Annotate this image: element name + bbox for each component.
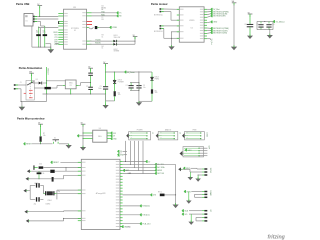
svg-text:TXD(D1): TXD(D1)	[142, 215, 149, 217]
wire gnd vertical	[40, 28, 42, 47]
svg-text:U1: U1	[102, 6, 104, 8]
svg-text:I2C: I2C	[209, 210, 211, 213]
svg-text:RESET: RESET	[53, 162, 59, 164]
svg-text:VUSB: VUSB	[112, 27, 117, 29]
power flag 5V cap	[248, 13, 253, 15]
wire reset row	[32, 143, 53, 145]
svg-text:Partie moteur: Partie moteur	[151, 2, 168, 6]
svg-text:Partie Alimentation: Partie Alimentation	[19, 66, 43, 70]
wire mcu row0	[123, 161, 146, 163]
wires mcu bottom right flags	[123, 205, 141, 207]
power flag VM	[232, 2, 237, 4]
svg-text:CONN: CONN	[205, 132, 207, 136]
svg-text:10k: 10k	[43, 135, 46, 137]
power flag +5V (USB)	[38, 5, 43, 7]
svg-text:1k: 1k	[102, 36, 104, 38]
net flag RESET 2	[50, 161, 52, 164]
net arrow row E	[26, 219, 29, 223]
wire to ground	[269, 30, 271, 35]
connector X1 USB	[24, 14, 33, 27]
wire xtal2 to ic	[57, 193, 81, 195]
capacitor C10	[268, 22, 270, 24]
svg-text:AREF: AREF	[157, 169, 162, 172]
led D2 power	[114, 72, 116, 80]
svg-text:MOTEUR-B: MOTEUR-B	[154, 31, 163, 33]
led D3	[151, 72, 153, 77]
capacitor C11 row	[33, 165, 34, 169]
svg-text:27R: 27R	[36, 32, 40, 34]
svg-text:YELLOW: YELLOW	[114, 37, 121, 39]
net flag stack right	[155, 163, 157, 166]
net flag PCB_LED	[150, 194, 152, 197]
svg-text:22p: 22p	[34, 203, 37, 205]
connector MOTEUR-B	[160, 25, 162, 27]
wire 5V branch down	[138, 72, 140, 102]
ground VM	[231, 47, 237, 51]
wire motA2	[164, 11, 171, 13]
resistor R8	[39, 166, 44, 168]
svg-text:22p: 22p	[58, 191, 61, 193]
svg-text:L1: L1	[102, 17, 104, 19]
net arrow XTAL	[23, 189, 26, 193]
resistor R9	[160, 194, 165, 197]
ground G2	[186, 201, 192, 204]
wire D-	[37, 18, 58, 20]
wire LED RX row	[90, 43, 113, 45]
net label 5V_Moteur vertical	[207, 38, 211, 40]
connector group G3	[182, 209, 184, 212]
net flag RESET	[23, 142, 25, 145]
svg-text:U2: U2	[191, 28, 193, 30]
svg-text:C8: C8	[244, 24, 246, 26]
resistor R7 10k	[40, 136, 42, 141]
svg-text:7805: 7805	[69, 83, 73, 85]
wire cap pair top	[257, 21, 273, 23]
fuse F1	[34, 87, 44, 89]
svg-text:fritzing: fritzing	[268, 235, 286, 240]
svg-text:RESET: RESET	[26, 144, 32, 146]
net flag icsp left	[185, 149, 187, 152]
wire motB1	[164, 25, 180, 27]
net arrow row D	[24, 210, 27, 214]
svg-text:LED3: LED3	[118, 80, 122, 82]
gnd rail alimentation	[43, 93, 106, 95]
net flags right of U4	[110, 132, 112, 135]
wire TXD	[92, 12, 118, 14]
net flag RXD	[116, 15, 118, 18]
svg-text:C4: C4	[126, 85, 128, 87]
wire xtal1 to ic	[57, 189, 81, 191]
capacitor C3	[103, 85, 108, 88]
wire r1 to gnd vertical	[155, 163, 175, 165]
svg-text:MOT: MOT	[126, 170, 130, 172]
svg-text:C5: C5	[143, 85, 145, 87]
ground moteur	[169, 46, 175, 50]
wire hook R1 to chip	[39, 27, 59, 29]
wire row D	[29, 211, 64, 213]
ground G1a	[189, 172, 191, 177]
power flag 5V leds	[133, 36, 138, 38]
svg-text:L293D: L293D	[189, 20, 195, 22]
power flag VIN	[29, 72, 34, 74]
wire gnd rail USB	[32, 46, 51, 48]
svg-text:ECHO: ECHO	[187, 191, 192, 193]
svg-text:MOTEUR B (EN): MOTEUR B (EN)	[213, 32, 227, 34]
wire red CBUS1	[87, 24, 93, 26]
wire row E	[30, 220, 64, 222]
svg-text:MOTEUR-A: MOTEUR-A	[154, 13, 163, 16]
ground reset	[66, 145, 72, 149]
wire red CBUS0	[87, 21, 93, 23]
wire 5v to gnd vertical	[82, 126, 84, 147]
svg-text:R4: R4	[102, 46, 104, 48]
wire reset to gnd	[59, 143, 69, 145]
svg-text:POWER: POWER	[118, 81, 125, 83]
svg-text:R9 1k: R9 1k	[158, 192, 162, 194]
svg-text:GREEN: GREEN	[114, 51, 121, 53]
connector group G2	[184, 190, 186, 193]
capacitor C1	[88, 72, 93, 75]
led LED2	[113, 43, 116, 46]
wire mcu rows 1-4 to flag stack	[123, 163, 156, 165]
wire row C	[30, 178, 64, 180]
ic U3 ATmega328	[81, 159, 120, 229]
resistor R5	[114, 91, 116, 96]
svg-text:IC1: IC1	[70, 85, 73, 87]
svg-text:5V: 5V	[148, 161, 151, 163]
svg-text:DTR: DTR	[54, 39, 58, 41]
svg-text:A4 / SDA: A4 / SDA	[157, 166, 165, 169]
wire cap loop	[130, 81, 139, 83]
net flag moteur row	[123, 169, 125, 172]
resistor R6	[151, 89, 153, 93]
connector header PWM	[182, 133, 185, 138]
svg-text:MOTEUR A EN: MOTEUR A EN	[213, 15, 226, 18]
net flags moteur group1	[207, 8, 211, 10]
svg-text:XTAL1: XTAL1	[47, 199, 52, 202]
net arrow row C	[26, 177, 29, 181]
ground USB	[48, 49, 55, 53]
svg-text:100n: 100n	[98, 88, 102, 90]
capacitor C2	[88, 86, 93, 89]
svg-text:R6: R6	[155, 90, 157, 92]
svg-text:FB: FB	[101, 19, 103, 21]
wire motB2	[163, 28, 165, 30]
svg-text:5V: 5V	[113, 136, 116, 138]
net flag gnd bottom	[120, 226, 122, 228]
wire VCC down	[39, 7, 41, 16]
svg-text:GND: GND	[213, 22, 218, 24]
svg-text:U1: U1	[74, 30, 76, 32]
svg-text:S2: S2	[54, 137, 56, 139]
svg-text:1k: 1k	[102, 48, 104, 50]
svg-text:RXLED: RXLED	[95, 43, 101, 45]
svg-text:FT232RL: FT232RL	[71, 28, 79, 30]
wire jack gnd	[18, 88, 21, 90]
svg-text:PWR2: PWR2	[155, 78, 160, 80]
wire motA1	[164, 8, 180, 10]
wire gnd strap	[171, 32, 173, 46]
svg-text:27R: 27R	[43, 32, 47, 34]
ic U2 L293D	[179, 7, 204, 42]
ic IC1 7805	[65, 80, 76, 89]
svg-text:10k: 10k	[118, 94, 121, 96]
power flag 5V main	[103, 63, 108, 65]
svg-text:R3: R3	[102, 35, 104, 37]
net flags moteur group2	[207, 27, 211, 29]
svg-text:330: 330	[155, 92, 158, 94]
wire jack to switch	[18, 84, 26, 86]
capacitor C9	[260, 22, 262, 24]
wire reset to ic	[60, 161, 81, 163]
svg-text:TX: TX	[119, 13, 122, 15]
power flag 5V headers	[81, 123, 86, 125]
svg-text:SONAR: SONAR	[209, 190, 212, 196]
svg-text:J2: J2	[151, 132, 153, 134]
svg-text:SDA: SDA	[185, 209, 189, 212]
svg-text:R1: R1	[36, 31, 38, 33]
net flags under headers	[117, 150, 119, 153]
capacitor C13 up	[38, 174, 40, 179]
svg-text:RXD(D0): RXD(D0)	[142, 206, 150, 208]
svg-text:LED1: LED1	[114, 35, 118, 37]
capacitor C4	[130, 82, 132, 85]
net arrow row B	[27, 169, 30, 173]
svg-text:Partie Microcontroleur: Partie Microcontroleur	[17, 117, 45, 121]
wire led return	[106, 100, 115, 102]
ground cap pair	[267, 35, 273, 39]
wire LED TX row	[90, 40, 113, 42]
svg-text:FT232: FT232	[102, 7, 107, 9]
wire cap pair bottom	[257, 29, 273, 31]
svg-text:POWER: POWER	[137, 130, 144, 132]
net flag 5V_Moteur	[272, 21, 274, 23]
svg-text:GND: GND	[113, 138, 117, 140]
connector header POWER	[126, 133, 129, 138]
svg-text:C3: C3	[100, 86, 102, 88]
svg-text:ICSP: ICSP	[207, 146, 209, 150]
net flag TXD	[116, 11, 118, 14]
wire pcb led row	[123, 194, 151, 196]
svg-text:16MHz: 16MHz	[46, 203, 51, 205]
svg-text:U4: U4	[99, 128, 101, 130]
svg-text:MOT EN: MOT EN	[157, 173, 164, 175]
resistor R2 27R	[44, 26, 46, 47]
svg-text:C2: C2	[86, 86, 88, 88]
wire RXD	[92, 15, 118, 17]
wire to regulator top	[47, 80, 66, 82]
svg-text:X1: X1	[26, 21, 28, 23]
svg-text:RTS: RTS	[54, 35, 57, 37]
svg-text:ANALOG: ANALOG	[165, 129, 172, 132]
svg-text:3V3: 3V3	[113, 133, 116, 135]
net flag 5V row0	[145, 160, 147, 163]
switch S1	[26, 81, 34, 101]
capacitor C8	[247, 23, 254, 26]
connector group G1	[183, 167, 185, 170]
net flag gnd mid	[207, 21, 211, 24]
led LED1	[113, 40, 116, 43]
svg-text:CBUS: CBUS	[53, 32, 57, 34]
svg-text:PCB_D13: PCB_D13	[142, 223, 150, 225]
capacitor C7 22p	[36, 197, 37, 201]
ground C3	[103, 105, 109, 109]
ground G1b	[197, 175, 199, 178]
ground branch	[136, 102, 142, 106]
crystal circuit	[28, 190, 31, 192]
power flag 5V reg	[88, 67, 93, 69]
connector ICSP	[180, 151, 183, 156]
svg-text:TXLED: TXLED	[95, 40, 101, 42]
diode D1	[39, 82, 42, 85]
capacitor C12	[31, 170, 50, 172]
svg-text:CTS: CTS	[54, 37, 57, 39]
svg-text:GND: GND	[127, 226, 131, 228]
connector MOTEUR-A	[160, 8, 162, 10]
svg-text:5V_Power: 5V_Power	[127, 71, 135, 74]
wire VBUS	[37, 16, 58, 18]
reg gnd stub	[70, 89, 72, 94]
svg-text:Partie USB: Partie USB	[16, 2, 30, 6]
svg-text:LED4: LED4	[155, 77, 159, 79]
svg-text:R7: R7	[43, 133, 45, 135]
svg-text:5V_Mot: 5V_Mot	[210, 39, 213, 45]
switch S2 reset button	[53, 139, 60, 141]
svg-text:ATmega328: ATmega328	[96, 192, 106, 195]
ic U1 FT232RL	[64, 9, 87, 49]
svg-text:R5: R5	[118, 92, 120, 94]
ic U4 small box	[83, 133, 84, 134]
svg-text:5V_Moteur: 5V_Moteur	[276, 20, 286, 23]
wire VM down	[233, 5, 235, 47]
row C to ic	[63, 175, 65, 179]
ground C8	[247, 36, 253, 39]
svg-text:VIN-EXT: VIN-EXT	[46, 68, 48, 75]
svg-text:SERVO: SERVO	[209, 168, 211, 174]
svg-text:LED: LED	[153, 195, 157, 197]
svg-text:5V: 5V	[120, 151, 123, 153]
connector header ANALOG	[156, 133, 159, 138]
svg-text:RX: RX	[119, 16, 122, 18]
capacitor C5	[138, 82, 140, 85]
svg-text:SCL: SCL	[185, 214, 188, 216]
wire reg out	[76, 85, 79, 87]
svg-text:J1: J1	[20, 82, 22, 84]
svg-text:LED2: LED2	[114, 49, 118, 51]
wire switch out	[34, 82, 38, 84]
power flag 5V reset	[38, 123, 43, 125]
net flag ALIM vertical	[46, 67, 48, 94]
vertical bus wires to headers	[125, 141, 127, 162]
svg-text:10u: 10u	[143, 87, 146, 89]
wire to VCC leds	[134, 37, 136, 45]
wire 5V row	[106, 71, 152, 73]
wire to ground	[50, 44, 52, 49]
ferrite bead L1	[87, 26, 89, 28]
strap pins 3-4	[58, 21, 59, 24]
svg-text:D1: D1	[36, 79, 38, 81]
crystal Q1	[42, 185, 44, 193]
wire D+	[37, 21, 40, 23]
ground mcu right	[173, 205, 179, 209]
connector J1 power jack	[14, 84, 16, 86]
ground alim	[19, 107, 26, 111]
wire rail left down	[46, 94, 48, 102]
ground G3	[188, 222, 194, 225]
ground headers	[80, 147, 86, 151]
svg-text:J3: J3	[178, 132, 180, 134]
svg-text:U1: U1	[73, 7, 75, 9]
net flag VUSB	[109, 26, 111, 29]
capacitor C6 22p	[36, 183, 37, 187]
svg-text:R2: R2	[43, 31, 45, 33]
wire USB shield	[31, 26, 33, 47]
net flag 5V row	[124, 71, 126, 74]
wire led2 return	[139, 100, 152, 102]
svg-text:100n: 100n	[39, 164, 43, 166]
wire row A	[43, 167, 81, 169]
resistor R1 27R	[38, 27, 40, 48]
capacitor C14 on row	[52, 177, 54, 182]
